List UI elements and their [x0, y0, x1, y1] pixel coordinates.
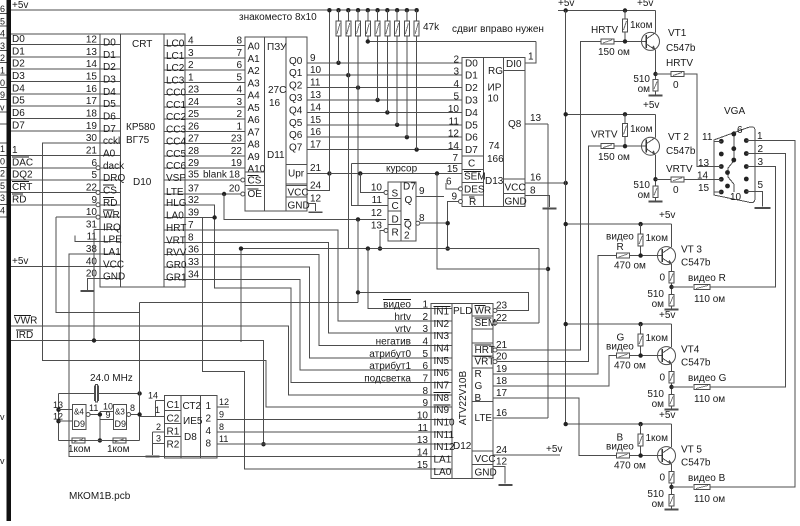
bus label RD / wire to RD pin 9: [11, 204, 100, 206]
svg-text:D6: D6: [465, 133, 478, 144]
svg-text:18: 18: [496, 376, 508, 387]
svg-text:A2: A2: [248, 66, 261, 77]
svg-text:ом: ом: [652, 499, 665, 510]
svg-text:курсор: курсор: [386, 164, 418, 175]
svg-text:14: 14: [417, 448, 429, 459]
VT1 1kom base resistor: [624, 11, 626, 20]
svg-text:+5v: +5v: [12, 256, 28, 267]
svg-text:1: 1: [528, 52, 534, 63]
svg-text:13: 13: [530, 113, 542, 124]
svg-text:Q3: Q3: [289, 93, 303, 104]
svg-text:1ком: 1ком: [630, 20, 653, 31]
video net vertical to IN1: [368, 249, 431, 309]
svg-text:23: 23: [496, 301, 508, 312]
svg-text:D0: D0: [103, 38, 116, 49]
svg-text:14: 14: [448, 141, 460, 152]
IRD bus wire down: [11, 341, 264, 445]
svg-text:D2: D2: [465, 83, 478, 94]
svg-text:11: 11: [372, 195, 383, 206]
svg-text:4: 4: [236, 85, 242, 96]
svg-text:CC1: CC1: [166, 100, 186, 111]
svg-text:C1: C1: [167, 400, 180, 411]
svg-text:10: 10: [417, 411, 429, 422]
svg-text:A5: A5: [248, 103, 261, 114]
svg-text:1: 1: [757, 131, 763, 142]
svg-text:A0: A0: [103, 148, 116, 159]
svg-text:7: 7: [188, 220, 194, 231]
svg-text:4: 4: [188, 36, 194, 47]
svg-text:14: 14: [310, 102, 322, 113]
svg-text:GND: GND: [103, 272, 125, 283]
svg-text:cckl: cckl: [103, 136, 120, 147]
svg-text:3: 3: [0, 193, 5, 203]
svg-text:31: 31: [86, 219, 98, 230]
D13 R pin 9 wire down: [459, 200, 463, 204]
svg-text:C547b: C547b: [666, 43, 696, 54]
svg-text:R: R: [617, 242, 624, 253]
svg-text:dack: dack: [103, 161, 125, 172]
HRT wire to PLD hrtv IN2: [185, 230, 431, 321]
D8 out 11 wire to PLD IN12: [217, 443, 431, 445]
PLD VCC to +5v: [493, 454, 560, 456]
svg-text:4: 4: [422, 337, 428, 348]
svg-text:5: 5: [91, 170, 97, 181]
svg-text:A10: A10: [248, 164, 266, 175]
svg-text:+5v: +5v: [546, 444, 562, 455]
svg-text:VT 3: VT 3: [681, 245, 702, 256]
svg-text:2: 2: [758, 144, 764, 155]
data bus D0-D7 wires: [11, 44, 100, 46]
svg-text:D7: D7: [103, 124, 116, 135]
svg-text:видео: видео: [606, 342, 634, 353]
svg-text:40: 40: [86, 256, 98, 267]
FF Qbar pin 8 wire: [416, 221, 420, 225]
svg-text:VT 2: VT 2: [668, 132, 689, 143]
svg-text:8: 8: [422, 386, 428, 397]
IC D8 IE5 counter: [164, 396, 217, 458]
pull-up resistor pack 9x 47k: [336, 8, 340, 12]
svg-text:Q4: Q4: [289, 105, 303, 116]
D13 DI0 out / Q8 wires right: [525, 123, 548, 125]
FF input wires S C D R: [384, 191, 388, 195]
VSP blank wire to ROM CS pin 18: [185, 179, 241, 181]
svg-text:4: 4: [0, 206, 5, 216]
svg-text:C547b: C547b: [681, 458, 711, 469]
svg-text:A0: A0: [248, 42, 261, 53]
VT 5 510 om to ground: [669, 495, 674, 507]
svg-text:15: 15: [447, 164, 459, 175]
svg-text:CRT: CRT: [132, 39, 152, 50]
svg-text:12: 12: [371, 208, 383, 219]
svg-text:CRT: CRT: [12, 182, 32, 193]
svg-text:13: 13: [53, 400, 63, 410]
D-net vertical: [357, 219, 359, 302]
svg-text:8: 8: [419, 213, 425, 224]
svg-text:LC1: LC1: [166, 51, 185, 62]
svg-text:CS: CS: [248, 176, 262, 187]
svg-text:Q: Q: [404, 220, 412, 231]
svg-text:D6: D6: [103, 112, 116, 123]
svg-text:GR1: GR1: [166, 273, 187, 284]
svg-text:ом: ом: [638, 84, 651, 95]
svg-text:CS: CS: [103, 185, 117, 196]
svg-text:D7: D7: [465, 145, 478, 156]
svg-text:35: 35: [188, 170, 200, 181]
svg-text:D0: D0: [12, 34, 25, 45]
svg-text:A7: A7: [248, 127, 261, 138]
bus label CRT / wire to CS pin 22: [11, 191, 100, 193]
svg-text:13: 13: [310, 90, 322, 101]
svg-text:8: 8: [236, 36, 242, 47]
svg-text:3: 3: [453, 67, 459, 78]
svg-text:C: C: [468, 158, 475, 169]
PLD right cells: [471, 303, 473, 304]
svg-text:12: 12: [310, 194, 322, 205]
transistor VT4 C547b: [658, 347, 676, 365]
svg-text:1: 1: [236, 121, 242, 132]
svg-text:+5v: +5v: [637, 0, 653, 9]
svg-text:16: 16: [269, 98, 281, 109]
VT 3 0 om emitter resistor: [669, 272, 674, 284]
svg-text:A4: A4: [248, 91, 261, 102]
svg-text:DI0: DI0: [506, 59, 522, 70]
svg-text:IN5: IN5: [434, 356, 450, 367]
svg-text:23: 23: [188, 85, 200, 96]
svg-text:OE: OE: [248, 189, 263, 200]
svg-text:LC0: LC0: [166, 39, 185, 50]
svg-text:D2: D2: [12, 59, 25, 70]
D13 GND pin 8 to ground: [525, 196, 550, 207]
svg-text:7: 7: [236, 48, 242, 59]
VT4 0 om emitter resistor: [669, 372, 674, 384]
VGA pin5 ground: [746, 192, 762, 207]
transistor VT 3 C547b: [658, 247, 676, 265]
quartz crystal: [93, 386, 95, 402]
svg-text:C2: C2: [167, 414, 180, 425]
svg-text:18: 18: [86, 109, 98, 120]
svg-text:2: 2: [156, 422, 161, 432]
svg-text:7: 7: [422, 374, 428, 385]
svg-text:IN2: IN2: [434, 319, 450, 330]
VT1 +5v rail: [558, 10, 656, 12]
PLD LTE out wire to Q8 vertical: [493, 417, 548, 419]
svg-text:RG: RG: [488, 66, 503, 77]
svg-text:WR: WR: [475, 306, 492, 317]
svg-text:5: 5: [422, 349, 428, 360]
D8 out 12 short stub: [217, 406, 229, 408]
svg-text:10: 10: [730, 192, 742, 203]
ROM Q0-Q7 wires to D13 D0-D7 with 47k pullup dots: [307, 62, 462, 64]
svg-text:3: 3: [422, 324, 428, 335]
svg-text:RVV: RVV: [166, 248, 187, 259]
VT 5 +5v rail: [566, 423, 672, 425]
svg-text:1: 1: [422, 300, 428, 311]
svg-text:13: 13: [698, 158, 710, 169]
svg-text:3: 3: [0, 41, 5, 51]
D13 VCC pin 16 to +5v riser: [525, 182, 566, 184]
svg-text:11: 11: [310, 78, 321, 89]
svg-text:VWR: VWR: [14, 316, 37, 327]
ROM GND pin 12 wire to ground: [307, 204, 316, 211]
svg-text:3: 3: [758, 157, 764, 168]
svg-text:v: v: [0, 102, 5, 112]
svg-text:VRT: VRT: [475, 357, 495, 368]
svg-text:12: 12: [53, 412, 63, 422]
svg-text:470 ом: 470 ом: [614, 261, 646, 272]
Q8 to cursor net loop and LTE: [547, 124, 549, 418]
svg-text:22: 22: [496, 313, 508, 324]
WR pin 10 wire: [56, 216, 100, 218]
left edge black bus bar: [7, 0, 12, 521]
VT2 510 om to ground: [653, 186, 658, 197]
svg-text:13: 13: [371, 221, 383, 232]
svg-text:VSP: VSP: [166, 173, 186, 184]
svg-text:ИР: ИР: [488, 83, 502, 94]
svg-text:27C: 27C: [268, 85, 286, 96]
svg-text:9: 9: [105, 410, 110, 420]
svg-text:1ком: 1ком: [68, 444, 91, 455]
svg-text:IN10: IN10: [434, 418, 456, 429]
svg-text:Q8: Q8: [508, 119, 522, 130]
serial line col4 to D13 DI0 pin 1: [368, 41, 536, 43]
svg-text:10: 10: [310, 65, 322, 76]
svg-text:0: 0: [0, 156, 5, 166]
PLD GND to ground: [493, 467, 505, 484]
inverter D9.1: [72, 405, 86, 430]
svg-text:VCC: VCC: [505, 183, 526, 194]
svg-text:150 ом: 150 ом: [598, 152, 630, 163]
osc middle vertical: [99, 411, 101, 440]
ROM Upr pin 21 wire joins cursor net: [307, 173, 330, 175]
svg-text:Upr: Upr: [288, 169, 305, 180]
svg-text:4: 4: [0, 29, 5, 39]
svg-text:12: 12: [86, 35, 98, 46]
WR bus wire to PLD IN8: [11, 326, 431, 395]
PLD G out to VT4: [493, 356, 617, 386]
D8 R1 R2 wires to ground: [153, 431, 165, 433]
SEM net vertical: [538, 249, 540, 323]
svg-text:PLD: PLD: [453, 306, 472, 317]
svg-text:6: 6: [737, 125, 743, 136]
svg-text:8: 8: [219, 422, 224, 432]
svg-text:VT1: VT1: [668, 28, 687, 39]
svg-text:IN1: IN1: [434, 307, 450, 318]
svg-text:&4: &4: [74, 408, 84, 417]
svg-text:D2: D2: [103, 62, 116, 73]
svg-text:16: 16: [86, 84, 98, 95]
svg-text:3: 3: [156, 434, 161, 444]
D8 out 9 wire to PLD IN10: [217, 419, 431, 421]
svg-text:&3: &3: [115, 408, 125, 417]
svg-text:5: 5: [236, 72, 242, 83]
svg-text:D3: D3: [103, 75, 116, 86]
svg-text:37: 37: [188, 184, 200, 195]
GR0 wire to PLD atribut0 IN5: [185, 267, 431, 358]
svg-text:D5: D5: [465, 120, 478, 131]
svg-text:150 ом: 150 ом: [598, 47, 630, 58]
svg-text:CC3: CC3: [166, 124, 186, 135]
svg-text:28: 28: [188, 146, 200, 157]
svg-text:20: 20: [496, 352, 508, 363]
svg-text:IN4: IN4: [434, 344, 450, 355]
svg-text:VRT: VRT: [166, 235, 186, 246]
svg-text:Q0: Q0: [289, 56, 303, 67]
svg-text:D5: D5: [12, 96, 25, 107]
svg-text:R: R: [475, 369, 482, 380]
svg-text:110 ом: 110 ом: [694, 394, 725, 405]
svg-text:D11: D11: [267, 150, 285, 161]
svg-text:негатив: негатив: [376, 337, 411, 348]
video net horizontal: [241, 248, 539, 250]
svg-text:видео: видео: [383, 300, 411, 311]
svg-text:D13: D13: [485, 176, 504, 187]
svg-text:13: 13: [86, 47, 98, 58]
svg-text:A6: A6: [248, 115, 261, 126]
svg-text:v: v: [0, 456, 5, 466]
svg-text:D8: D8: [184, 432, 197, 443]
svg-text:15: 15: [698, 183, 710, 194]
LA0 wire to PLD LA0 with jog around D8: [185, 217, 215, 219]
svg-text:12: 12: [448, 129, 460, 140]
VT4 510 om to ground: [669, 395, 674, 407]
svg-text:2: 2: [0, 169, 5, 179]
svg-text:DES: DES: [464, 184, 485, 195]
svg-text:ВГ75: ВГ75: [126, 135, 150, 146]
svg-text:подсветка: подсветка: [364, 374, 411, 385]
svg-text:3: 3: [236, 97, 242, 108]
svg-text:16: 16: [496, 408, 508, 419]
RVV wire to PLD negativ IN4: [185, 255, 431, 346]
svg-text:1: 1: [155, 405, 160, 415]
svg-text:LC3: LC3: [166, 75, 185, 86]
svg-text:24: 24: [310, 181, 322, 192]
svg-text:0: 0: [659, 373, 665, 384]
svg-text:C547b: C547b: [681, 258, 711, 269]
svg-text:19: 19: [496, 364, 508, 375]
svg-text:DQ2: DQ2: [12, 170, 33, 181]
svg-text:32: 32: [188, 195, 200, 206]
IC D12 ATV22V10B PLD: [431, 303, 493, 478]
VGA DB15 shell: [714, 127, 755, 203]
svg-text:LA1: LA1: [103, 247, 121, 258]
svg-text:VCC: VCC: [475, 454, 496, 465]
svg-text:39: 39: [188, 208, 200, 219]
svg-text:LA0: LA0: [166, 211, 184, 222]
svg-text:0: 0: [673, 80, 679, 91]
svg-text:6: 6: [422, 361, 428, 372]
svg-text:D: D: [392, 215, 399, 226]
svg-text:47k: 47k: [423, 22, 440, 33]
IRQ vertical to IRD bus: [93, 229, 95, 340]
svg-text:+5v: +5v: [12, 0, 28, 11]
svg-text:0: 0: [659, 473, 665, 484]
svg-text:CC6: CC6: [166, 161, 186, 172]
D13 C clock wire to FF C feed: [352, 163, 463, 165]
svg-text:1: 1: [0, 144, 5, 154]
svg-text:8: 8: [188, 232, 194, 243]
IC D13 74166 shift register: [462, 58, 525, 207]
svg-text:24: 24: [496, 445, 508, 456]
svg-text:7: 7: [452, 153, 458, 164]
svg-text:LA0: LA0: [434, 467, 452, 478]
VT4 +5v rail: [566, 323, 672, 325]
LPE pin 11 wire stub with tick: [75, 236, 100, 242]
svg-text:22: 22: [231, 146, 243, 157]
svg-text:9: 9: [451, 192, 457, 203]
cursor flip-flop D7 half: [388, 182, 416, 241]
svg-text:Q6: Q6: [289, 130, 303, 141]
svg-text:CC0: CC0: [166, 88, 186, 99]
svg-text:11: 11: [87, 232, 98, 243]
svg-text:IN7: IN7: [434, 381, 450, 392]
svg-text:+5v: +5v: [558, 0, 574, 9]
svg-text:blank: blank: [203, 170, 228, 181]
svg-text:9: 9: [422, 398, 428, 409]
svg-text:1: 1: [12, 145, 18, 156]
svg-text:2: 2: [206, 414, 212, 425]
svg-text:1ком: 1ком: [646, 433, 669, 444]
svg-text:24.0 MHz: 24.0 MHz: [90, 373, 133, 384]
svg-text:11: 11: [449, 116, 460, 127]
FF Q pin 9 wire: [416, 196, 444, 198]
VT 3 510 om to ground: [669, 295, 674, 307]
svg-text:5: 5: [758, 180, 764, 191]
osc node riser up and over: [139, 303, 141, 394]
svg-text:ATV22V10B: ATV22V10B: [458, 371, 469, 426]
WR pin net to osc riser: [56, 217, 139, 312]
svg-text:R: R: [392, 228, 399, 239]
svg-text:Q7: Q7: [289, 143, 303, 154]
svg-text:R1: R1: [167, 427, 180, 438]
svg-text:27: 27: [188, 134, 200, 145]
svg-text:24: 24: [188, 97, 200, 108]
svg-text:10: 10: [448, 104, 460, 115]
svg-text:5: 5: [0, 181, 5, 191]
LA1 pin 38 wire to D12 LA1: [69, 254, 431, 457]
svg-text:34: 34: [188, 270, 200, 281]
svg-text:IN12: IN12: [434, 442, 456, 453]
svg-text:+5v: +5v: [659, 410, 675, 421]
IRQ pin 31 wire: [94, 228, 100, 230]
svg-text:4: 4: [453, 79, 459, 90]
LTE branch down to cursor FF D and PLD WR: [224, 194, 386, 219]
svg-text:21: 21: [310, 163, 322, 174]
svg-text:IN6: IN6: [434, 368, 450, 379]
svg-text:LTE: LTE: [475, 413, 493, 424]
osc right vertical: [139, 394, 141, 441]
VT 3 1kom resistor: [640, 224, 642, 234]
svg-text:6: 6: [236, 60, 242, 71]
bus separator line: [11, 33, 100, 35]
svg-text:D4: D4: [465, 108, 478, 119]
svg-text:видео: видео: [606, 442, 634, 453]
address wires LC0-LC3 CC0-CC6 to ROM A0-A10: [185, 45, 245, 47]
svg-text:D3: D3: [12, 71, 25, 82]
vertical left of video net: [240, 249, 242, 342]
WR net from PLD pin 23: [493, 309, 497, 313]
ROM Upr cell: [286, 163, 307, 165]
svg-text:25: 25: [188, 109, 200, 120]
svg-text:VGA: VGA: [724, 106, 745, 117]
svg-text:D9: D9: [115, 419, 127, 429]
svg-text:2: 2: [453, 54, 459, 65]
svg-text:17: 17: [310, 140, 322, 151]
svg-text:1ком: 1ком: [107, 444, 130, 455]
svg-text:Q5: Q5: [289, 118, 303, 129]
svg-text:v: v: [0, 412, 5, 422]
svg-text:A9: A9: [248, 152, 261, 163]
svg-text:знакоместо 8x10: знакоместо 8x10: [239, 12, 317, 23]
